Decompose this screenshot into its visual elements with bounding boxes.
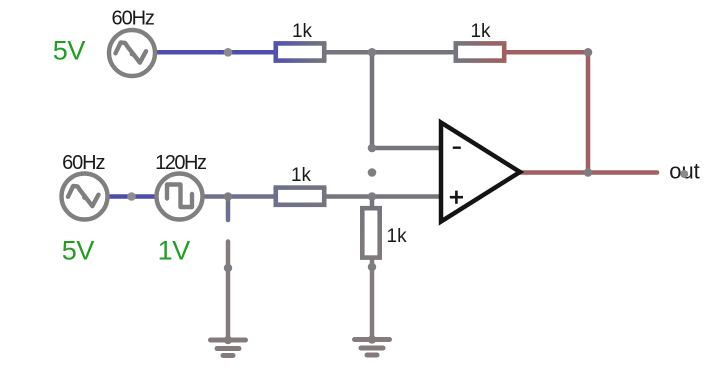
wire R2 to corner: [505, 50, 588, 55]
post dot below R4: [368, 263, 376, 271]
AC source V3 120Hz square: [157, 174, 203, 220]
stub below junction B: [226, 197, 231, 221]
svg-text:5V: 5V: [53, 35, 86, 65]
dot at ground 1 top: [224, 336, 232, 344]
svg-text:1k: 1k: [470, 21, 491, 42]
ground symbol 2: [355, 340, 390, 356]
feedback wire vertical: [586, 52, 591, 172]
wire R3 to non-inverting input: [325, 194, 441, 199]
resistor R4 1k vertical: [362, 208, 379, 257]
resistor R2 1k: [456, 43, 504, 60]
svg-text:5V: 5V: [62, 236, 95, 266]
svg-text:1k: 1k: [387, 226, 408, 247]
wire V2 to V3: [108, 194, 156, 199]
node A dot: [368, 48, 377, 57]
svg-text:60Hz: 60Hz: [112, 8, 154, 30]
svg-text:1V: 1V: [158, 236, 191, 266]
ground symbol 1: [211, 340, 246, 356]
output node dot: [584, 168, 593, 177]
svg-text:120Hz: 120Hz: [155, 152, 206, 174]
wire V3 to R3: [203, 194, 275, 199]
ground lead wire 1: [226, 242, 231, 341]
ground lead wire 2: [370, 258, 375, 340]
wire output to out terminal: [520, 170, 657, 175]
dot at ground 2 top: [368, 335, 376, 343]
resistor R3 1k: [276, 188, 324, 205]
corner dot: [584, 48, 593, 57]
wire R1 to R2 node A: [325, 50, 455, 55]
svg-text:60Hz: 60Hz: [62, 152, 104, 174]
junction dot B: [224, 192, 233, 201]
AC source V2 60Hz: [62, 174, 108, 220]
lone post dot: [368, 168, 377, 177]
wire to inverting input: [372, 146, 441, 151]
post dot between sources: [127, 192, 136, 201]
svg-text:1k: 1k: [291, 165, 312, 186]
AC source V1 60Hz: [109, 30, 155, 76]
wire node A down: [370, 52, 375, 148]
op-amp U1: [441, 123, 520, 222]
inverting node dot: [368, 144, 377, 153]
svg-text:1k: 1k: [292, 21, 313, 42]
junction dot C: [368, 192, 377, 201]
wire V1 to R1: [155, 50, 275, 55]
resistor R1 1k: [276, 43, 324, 60]
out terminal post: [680, 170, 688, 178]
stub R4 top: [370, 197, 375, 211]
post dot on ground lead 1: [224, 264, 232, 272]
junction dot top-left: [224, 48, 233, 57]
